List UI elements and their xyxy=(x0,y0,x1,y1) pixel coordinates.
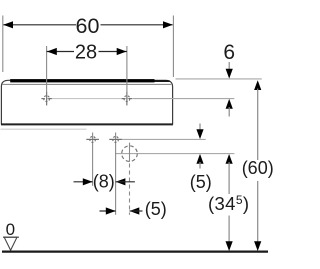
tap hole cross left xyxy=(41,92,51,106)
dim (60) line lower xyxy=(257,181,259,242)
dim 28 extension right xyxy=(126,46,128,105)
datum triangle xyxy=(4,237,17,250)
washbasin top edge taper xyxy=(155,80,170,82)
svg-text:0: 0 xyxy=(6,220,15,239)
washbasin bottom edge xyxy=(1,123,173,125)
dim (34.5) lower arrow xyxy=(226,241,233,251)
dim (60) line upper xyxy=(257,89,259,161)
dim 60 extension right xyxy=(172,16,174,78)
dim (5) bottom arrow right xyxy=(130,207,140,214)
dim (5) right upper arrow xyxy=(196,129,203,139)
dim 6 upper arrow line xyxy=(228,62,230,70)
svg-text:6: 6 xyxy=(223,41,235,64)
dim (5) right lower arrow xyxy=(196,154,203,164)
dim (5) right upper arrow line xyxy=(199,124,201,132)
hidden bottom line xyxy=(1,128,87,130)
lower holes axis line right xyxy=(109,138,206,140)
dim 6 lower arrow line xyxy=(228,107,230,117)
dim (8) right tail xyxy=(116,181,135,183)
drain axis line xyxy=(115,153,234,155)
dim (34.5) upper arrow xyxy=(226,154,233,164)
svg-text:28: 28 xyxy=(75,41,97,63)
lower holes axis line left xyxy=(86,138,99,140)
dim 28 extension left xyxy=(46,46,48,105)
dim (34.5) line lower xyxy=(228,216,230,243)
svg-text:60: 60 xyxy=(76,14,100,38)
dim 28 line xyxy=(47,51,74,53)
datum line xyxy=(3,236,19,238)
dim (8) line left tail xyxy=(74,181,93,183)
dim 28 arrow right xyxy=(117,48,127,55)
tap hole axis line outer xyxy=(133,98,234,100)
floor line xyxy=(2,250,268,252)
washbasin top thick edge xyxy=(10,79,154,82)
dim (60) upper arrow xyxy=(254,80,261,90)
lower hole cross left xyxy=(86,133,98,186)
dim 6 lower arrow xyxy=(226,99,233,109)
dim (5) right lower arrow line xyxy=(199,162,201,169)
svg-text:(8): (8) xyxy=(93,171,115,191)
dim 60 extension left xyxy=(2,16,4,73)
dim 60 arrow left xyxy=(3,21,13,28)
lower hole cross right xyxy=(109,133,121,215)
drain circle vertical centerline xyxy=(129,143,131,162)
svg-text:(5): (5) xyxy=(145,199,167,219)
washbasin outline xyxy=(1,80,172,124)
washbasin front inner line xyxy=(2,83,171,85)
dim 28 arrow left xyxy=(47,48,57,55)
drain circle xyxy=(122,146,138,162)
dim 60 arrow right xyxy=(163,21,173,28)
dim 60 line xyxy=(3,24,76,26)
svg-text:(5): (5) xyxy=(190,172,212,192)
dim (8) arrow left xyxy=(83,178,93,185)
dim (5) bottom right tail xyxy=(130,210,143,212)
tap hole axis line inner xyxy=(47,98,133,100)
dim (60) lower arrow xyxy=(254,241,261,251)
svg-text:(60): (60) xyxy=(242,158,273,178)
dim (34.5) line upper xyxy=(228,162,230,194)
tap hole cross right xyxy=(122,92,132,106)
top right reference line xyxy=(176,78,262,80)
dim (8) arrow right xyxy=(116,178,126,185)
dim (5) bottom arrow left xyxy=(106,207,116,214)
dim 6 upper arrow xyxy=(226,69,233,79)
dim (5) bottom left tail xyxy=(100,210,116,212)
svg-text:(345): (345) xyxy=(208,193,249,214)
drain circle extension dashed xyxy=(129,164,131,215)
